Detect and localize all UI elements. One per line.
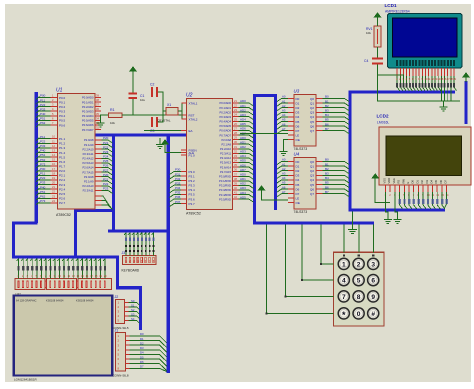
svg-text:P51: P51 [40, 117, 46, 121]
svg-text:A0: A0 [282, 95, 286, 99]
svg-text:A2: A2 [282, 104, 286, 108]
svg-text:P33: P33 [175, 181, 181, 185]
svg-text:Q5: Q5 [310, 120, 314, 124]
wire RV1 to C4 and down to ground rail [377, 47, 379, 58]
svg-text:P0.4/AD4: P0.4/AD4 [219, 120, 231, 124]
svg-text:P0.6: P0.6 [59, 123, 66, 127]
svg-text:4: 4 [342, 278, 346, 285]
svg-text:XTAL2: XTAL2 [189, 117, 198, 121]
power arrow at LCD1 bus corner [463, 73, 469, 82]
svg-text:A7: A7 [282, 127, 286, 131]
svg-text:P1.1: P1.1 [59, 137, 66, 141]
svg-text:B2: B2 [325, 104, 329, 108]
capacitor C1 [129, 93, 146, 103]
svg-text:B7: B7 [325, 190, 329, 194]
svg-text:1: 1 [342, 261, 346, 268]
svg-text:U3: U3 [294, 89, 300, 94]
keypad buttons [338, 258, 379, 320]
svg-text:Q7: Q7 [310, 192, 314, 196]
svg-text:AD0: AD0 [240, 173, 246, 177]
connector J1 [116, 333, 130, 372]
svg-text:#: # [371, 311, 375, 318]
svg-text:D3: D3 [296, 174, 300, 178]
svg-text:P62: P62 [40, 121, 46, 125]
bus keyboard header horizontal [108, 229, 168, 232]
svg-text:AD3: AD3 [240, 113, 246, 117]
svg-text:RW: RW [401, 179, 405, 184]
U1 right top pin stubs [82, 94, 101, 132]
svg-text:P3.2/RXD: P3.2/RXD [219, 184, 231, 188]
svg-text:P3.0/RXD: P3.0/RXD [219, 175, 231, 179]
svg-text:B6: B6 [325, 185, 329, 189]
svg-text:LE: LE [296, 196, 300, 200]
svg-text:AD5: AD5 [240, 159, 246, 163]
svg-text:P22: P22 [40, 103, 46, 107]
keypad row wires from bus [265, 225, 333, 315]
svg-text:P30: P30 [175, 168, 181, 172]
bus left vertical (P0 net to GLCD) [35, 92, 38, 223]
power arrow above RV1 [375, 13, 381, 22]
svg-text:AD1: AD1 [240, 140, 246, 144]
svg-text:P0.0/AD0: P0.0/AD0 [219, 101, 231, 105]
svg-text:P0.3/AD3: P0.3/AD3 [219, 115, 231, 119]
svg-text:P0.5/AD5: P0.5/AD5 [82, 119, 94, 123]
svg-text:B3: B3 [325, 172, 329, 176]
svg-text:Q5: Q5 [310, 183, 314, 187]
bus vertical right of U1 [112, 134, 115, 232]
svg-text:AD5: AD5 [240, 122, 246, 126]
svg-text:P3.4/RXD: P3.4/RXD [219, 193, 231, 197]
svg-text:P2.6: P2.6 [59, 197, 66, 201]
svg-text:10u: 10u [140, 98, 145, 102]
svg-text:P0.5: P0.5 [59, 119, 66, 123]
svg-text:D6: D6 [140, 360, 144, 364]
svg-text:P2.6/A14: P2.6/A14 [220, 165, 232, 169]
svg-text:LM?: LM? [15, 292, 21, 296]
svg-text:Q0: Q0 [310, 160, 314, 164]
bus GLCD header right drop to J2 [118, 256, 141, 331]
svg-text:P21: P21 [103, 141, 109, 145]
svg-text:A4: A4 [282, 176, 286, 180]
svg-text:P33: P33 [40, 181, 46, 185]
svg-text:P36: P36 [175, 195, 181, 199]
svg-text:P3.1: P3.1 [189, 174, 196, 178]
svg-text:P0.1: P0.1 [59, 100, 66, 104]
svg-text:D3: D3 [296, 111, 300, 115]
wire EA to U2 [144, 130, 187, 132]
svg-text:S0: S0 [131, 299, 135, 303]
svg-text:AT89C52: AT89C52 [56, 213, 71, 217]
wires bus to J3 [124, 233, 155, 256]
svg-text:A3: A3 [282, 172, 286, 176]
svg-text:P0.0: P0.0 [59, 96, 66, 100]
svg-text:P11: P11 [40, 98, 45, 102]
svg-text:AD3: AD3 [240, 186, 246, 190]
bus staircase U1 bottom [76, 211, 114, 259]
svg-text:P3.1/RXD: P3.1/RXD [219, 179, 231, 183]
svg-text:8: 8 [357, 294, 361, 301]
svg-text:D4: D4 [296, 115, 300, 119]
svg-text:P20: P20 [103, 173, 109, 177]
svg-text:A1: A1 [282, 99, 286, 103]
svg-text:P2.2/A10: P2.2/A10 [220, 147, 232, 151]
bus stub right edge [464, 81, 467, 124]
svg-text:P3.3: P3.3 [189, 184, 196, 188]
glcd pin header strip [15, 279, 112, 290]
svg-text:P23: P23 [103, 150, 109, 154]
svg-text:AD2: AD2 [240, 145, 246, 149]
svg-text:B0: B0 [325, 158, 329, 162]
glcd LCD3 screen [14, 296, 113, 376]
svg-text:P2.4/A12: P2.4/A12 [82, 157, 94, 161]
svg-text:B1: B1 [325, 99, 329, 103]
svg-text:KS0108 64X64: KS0108 64X64 [46, 299, 64, 303]
svg-text:AD6: AD6 [240, 127, 246, 131]
svg-text:OE: OE [296, 201, 300, 205]
svg-text:P20: P20 [103, 136, 109, 140]
svg-text:B3: B3 [325, 109, 329, 113]
svg-text:P3.0: P3.0 [189, 170, 196, 174]
svg-text:P2.2: P2.2 [59, 178, 66, 182]
svg-text:D2: D2 [296, 106, 300, 110]
bus U2 right vertical [253, 94, 256, 225]
svg-text:X1: X1 [167, 103, 171, 107]
svg-text:P2.6/A14: P2.6/A14 [82, 166, 94, 170]
svg-text:D5: D5 [296, 183, 300, 187]
svg-text:U4: U4 [294, 152, 300, 157]
svg-text:D0: D0 [140, 332, 144, 336]
svg-text:U2: U2 [186, 93, 193, 99]
svg-text:D4: D4 [140, 351, 144, 355]
svg-text:D0: D0 [296, 160, 300, 164]
wires bus to glcd header [17, 259, 108, 279]
wires crystal to U2 XTAL pins [158, 92, 163, 122]
svg-text:P27: P27 [103, 168, 109, 172]
svg-text:P3.2: P3.2 [189, 179, 196, 183]
svg-text:P11: P11 [40, 172, 45, 176]
svg-text:P2.5: P2.5 [59, 192, 66, 196]
svg-text:B6: B6 [325, 122, 329, 126]
svg-text:AD4: AD4 [240, 118, 246, 122]
svg-text:RS: RS [397, 180, 401, 184]
svg-text:P0.2/AD2: P0.2/AD2 [82, 105, 94, 109]
svg-text:P37: P37 [175, 200, 181, 204]
svg-text:AD4: AD4 [240, 191, 246, 195]
svg-text:P2.0/A8: P2.0/A8 [84, 175, 94, 179]
keypad body [334, 252, 385, 326]
svg-text:P1.6: P1.6 [59, 160, 66, 164]
svg-text:B2: B2 [325, 167, 329, 171]
svg-text:P3.5/RXD: P3.5/RXD [219, 197, 231, 201]
svg-text:Q7: Q7 [310, 129, 314, 133]
svg-text:P51: P51 [40, 153, 46, 157]
svg-text:P2.1/A9: P2.1/A9 [84, 143, 94, 147]
svg-text:C2: C2 [150, 83, 154, 87]
svg-text:Q2: Q2 [310, 169, 314, 173]
capacitor C4 below RV1 [364, 58, 383, 65]
svg-text:P2.3/A11: P2.3/A11 [83, 152, 94, 156]
U3 LE OE pins [288, 133, 300, 142]
svg-text:P0.2: P0.2 [59, 105, 66, 109]
bus U1 to U2 horizontal AD bus [96, 133, 187, 136]
svg-text:D6: D6 [296, 124, 300, 128]
svg-text:D5: D5 [434, 180, 438, 184]
svg-text:P3.3/RXD: P3.3/RXD [219, 188, 231, 192]
svg-text:0: 0 [357, 311, 361, 318]
svg-text:R1: R1 [110, 108, 115, 112]
svg-text:A1: A1 [282, 162, 286, 166]
svg-text:P31: P31 [175, 172, 181, 176]
svg-text:B5: B5 [325, 181, 329, 185]
svg-text:7: 7 [342, 294, 346, 301]
svg-text:S2: S2 [131, 308, 135, 312]
svg-text:J2: J2 [115, 295, 119, 299]
svg-text:P0.5/AD5: P0.5/AD5 [219, 124, 231, 128]
ic U3 74LS373 body [294, 95, 316, 147]
svg-text:P23: P23 [103, 187, 109, 191]
wire RV1 wiper to LCD1 VO pin [378, 75, 404, 79]
svg-text:P2.3/A11: P2.3/A11 [83, 189, 94, 193]
svg-text:AD7: AD7 [240, 168, 246, 172]
svg-text:P2.7/A15: P2.7/A15 [220, 170, 232, 174]
svg-text:D2: D2 [296, 169, 300, 173]
svg-text:P0.4: P0.4 [59, 114, 66, 118]
svg-text:D5: D5 [140, 355, 144, 359]
ground below R1 [97, 120, 105, 127]
svg-text:P00: P00 [40, 167, 46, 171]
bus LCD1 horizontal [349, 90, 456, 93]
svg-text:A4: A4 [282, 113, 286, 117]
svg-text:P34: P34 [175, 186, 181, 190]
wire arrow to RV1 [377, 22, 379, 26]
svg-text:P40: P40 [40, 112, 46, 116]
svg-text:P51: P51 [40, 190, 46, 194]
svg-text:D1: D1 [296, 101, 300, 105]
U4 LE OE pins [288, 196, 300, 205]
svg-text:AD6: AD6 [240, 163, 246, 167]
svg-text:D1: D1 [296, 164, 300, 168]
power arrow left of U4 [259, 186, 265, 195]
svg-text:D3: D3 [425, 180, 429, 184]
ground below U3 [284, 140, 289, 149]
wires J1 to center bus [130, 332, 167, 371]
svg-text:P40: P40 [40, 185, 46, 189]
svg-text:A2: A2 [282, 167, 286, 171]
svg-text:P1.2: P1.2 [59, 142, 66, 146]
svg-text:P0.2/AD2: P0.2/AD2 [219, 110, 231, 114]
ground under LCD2 vee [394, 217, 402, 224]
ic U4 74LS373 body [294, 158, 316, 210]
svg-text:D6: D6 [439, 180, 443, 184]
svg-text:P24: P24 [103, 155, 109, 159]
svg-text:P2.1/A9: P2.1/A9 [84, 179, 94, 183]
svg-text:P3.4: P3.4 [189, 188, 196, 192]
wire R1 right to U2 RST [122, 114, 187, 116]
svg-text:P0.4/AD4: P0.4/AD4 [82, 114, 94, 118]
svg-text:P0.1/AD1: P0.1/AD1 [82, 100, 94, 104]
svg-text:P22: P22 [103, 182, 109, 186]
svg-text:D2: D2 [420, 180, 424, 184]
svg-text:VEE: VEE [392, 178, 396, 184]
lcd LCD2 pin labels inside [383, 178, 448, 184]
wire ALE arrow to U2 [165, 148, 187, 153]
svg-text:P0.1/AD1: P0.1/AD1 [219, 106, 231, 110]
svg-text:P2.2/A10: P2.2/A10 [82, 184, 94, 188]
svg-text:P3.7: P3.7 [189, 202, 196, 206]
U1 right middle pins wires to vertical bus [82, 136, 112, 193]
svg-text:J3: J3 [122, 251, 126, 255]
power arrow at U2 ALE [162, 140, 168, 148]
svg-text:64 128 GRAPHIC: 64 128 GRAPHIC [16, 299, 37, 303]
lcd LCD2 screen [386, 136, 462, 176]
svg-text:P2.2/A10: P2.2/A10 [82, 147, 94, 151]
svg-text:OE: OE [296, 138, 300, 142]
svg-text:U1: U1 [56, 88, 63, 94]
svg-text:AD5: AD5 [240, 195, 246, 199]
lcd LCD2 pins and wires to bus [385, 185, 450, 209]
svg-text:B7: B7 [325, 127, 329, 131]
svg-text:S3: S3 [131, 312, 135, 316]
svg-text:B4: B4 [325, 113, 329, 117]
svg-text:A5: A5 [282, 181, 286, 185]
svg-text:P2.0: P2.0 [59, 169, 66, 173]
svg-text:AD4: AD4 [240, 154, 246, 158]
lcd LCD1 body [388, 14, 463, 69]
svg-text:D7: D7 [444, 180, 448, 184]
power arrow LCD2 vdd [372, 174, 378, 182]
svg-text:P1.7: P1.7 [59, 165, 66, 169]
U2 bottom left P3 pins wires into center bus [170, 168, 196, 207]
lcd LCD1 screen [393, 18, 458, 57]
svg-text:D1: D1 [415, 180, 419, 184]
svg-text:P2.3/A11: P2.3/A11 [220, 152, 231, 156]
svg-text:LM016L: LM016L [377, 121, 389, 125]
svg-text:D5: D5 [296, 120, 300, 124]
svg-text:P22: P22 [40, 176, 46, 180]
svg-text:P62: P62 [40, 158, 46, 162]
svg-text:LCD2: LCD2 [377, 114, 389, 119]
ground under LCD2 vss [384, 217, 392, 224]
U4 left pins wires from bracket bus [277, 158, 300, 197]
svg-text:P2.3: P2.3 [59, 183, 66, 187]
svg-text:P00: P00 [40, 94, 46, 98]
svg-text:D0: D0 [411, 180, 415, 184]
svg-text:Q1: Q1 [310, 101, 314, 105]
svg-text:P1.3: P1.3 [59, 146, 66, 150]
svg-text:AD0: AD0 [240, 99, 246, 103]
ic U1 AT89C52 body [58, 94, 96, 210]
svg-text:Q4: Q4 [310, 178, 314, 182]
svg-text:Q3: Q3 [310, 111, 314, 115]
lcd LCD1 pin marks inside body [396, 60, 455, 66]
svg-text:Q2: Q2 [310, 106, 314, 110]
svg-text:P0.3: P0.3 [59, 110, 66, 114]
ground right of LCD1 [440, 104, 448, 111]
svg-text:P1.4: P1.4 [59, 151, 66, 155]
svg-text:D7: D7 [140, 365, 144, 369]
wire R1 left to ground [101, 115, 109, 120]
svg-text:VDD: VDD [387, 178, 391, 184]
svg-text:Q3: Q3 [310, 174, 314, 178]
svg-text:P26: P26 [103, 164, 109, 168]
bus long vertical center [167, 134, 170, 374]
svg-text:LCD1: LCD1 [385, 3, 397, 8]
svg-text:P73: P73 [40, 199, 46, 203]
capacitor C2 [150, 83, 158, 98]
svg-text:P0.7/AD7: P0.7/AD7 [219, 133, 231, 137]
svg-text:AD2: AD2 [240, 108, 246, 112]
svg-text:C4: C4 [364, 59, 368, 63]
svg-text:P22: P22 [40, 140, 46, 144]
svg-text:RST: RST [189, 113, 195, 117]
svg-text:P3.5: P3.5 [189, 193, 196, 197]
svg-text:B0: B0 [325, 95, 329, 99]
svg-text:*: * [342, 310, 346, 320]
svg-text:10k: 10k [366, 31, 371, 35]
svg-text:P2.5/A13: P2.5/A13 [220, 161, 232, 165]
U2 right pins wires into latch bus [219, 99, 253, 202]
svg-text:CONN-SIL8: CONN-SIL8 [113, 374, 129, 378]
bus right vertical at latches output [348, 92, 351, 212]
U1 left pins port wires to bus [36, 94, 66, 206]
wires J2 to bus [129, 299, 140, 323]
U1 bottom right pins wires into staircase bus [95, 196, 113, 210]
crystal X1 [157, 103, 178, 123]
lcd LCD1 pins and wires to bus [396, 68, 457, 101]
bus latch bracket top [253, 96, 276, 211]
ic U2 AT89C52 body [187, 99, 233, 210]
svg-text:D0: D0 [296, 97, 300, 101]
ground at right bus end [352, 212, 354, 227]
svg-text:P62: P62 [40, 195, 46, 199]
svg-text:AT89C52: AT89C52 [186, 212, 201, 216]
svg-text:P1.5: P1.5 [59, 155, 66, 159]
svg-text:VSS: VSS [383, 178, 387, 184]
svg-text:P2.1: P2.1 [59, 174, 66, 178]
svg-text:P2.4/A12: P2.4/A12 [220, 156, 232, 160]
power vcc arrow above C1 [130, 67, 136, 76]
svg-text:D2: D2 [140, 341, 144, 345]
U3 left pins wires from bracket bus [277, 95, 300, 134]
svg-text:EA: EA [189, 129, 193, 133]
wire arrow to U4 pin [262, 195, 289, 200]
connector J3 keyboard header [123, 256, 156, 265]
svg-text:P2.0/A8: P2.0/A8 [84, 138, 94, 142]
svg-text:AD1: AD1 [240, 104, 246, 108]
capacitor C3 [150, 117, 158, 133]
svg-text:9: 9 [371, 294, 375, 301]
U2 left pin names [181, 101, 198, 157]
svg-text:KEYBOARD: KEYBOARD [122, 269, 140, 273]
svg-text:B1: B1 [325, 162, 329, 166]
svg-text:XTAL1: XTAL1 [189, 101, 198, 105]
svg-text:P0.6/AD6: P0.6/AD6 [219, 129, 231, 133]
svg-text:AD1: AD1 [240, 177, 246, 181]
svg-text:P0.6/AD6: P0.6/AD6 [82, 123, 94, 127]
svg-text:P2.1/A9: P2.1/A9 [221, 142, 231, 146]
svg-text:74LS373: 74LS373 [294, 147, 308, 151]
svg-text:D3: D3 [140, 346, 144, 350]
svg-text:J1: J1 [115, 329, 119, 333]
svg-text:D6: D6 [296, 187, 300, 191]
svg-text:P35: P35 [175, 191, 181, 195]
svg-text:Q1: Q1 [310, 164, 314, 168]
svg-text:P21: P21 [103, 177, 109, 181]
bus LCD2 bottom horizontal [349, 208, 446, 211]
svg-text:D1: D1 [140, 337, 144, 341]
svg-text:5: 5 [357, 278, 361, 285]
svg-text:P2.5/A13: P2.5/A13 [82, 161, 94, 165]
